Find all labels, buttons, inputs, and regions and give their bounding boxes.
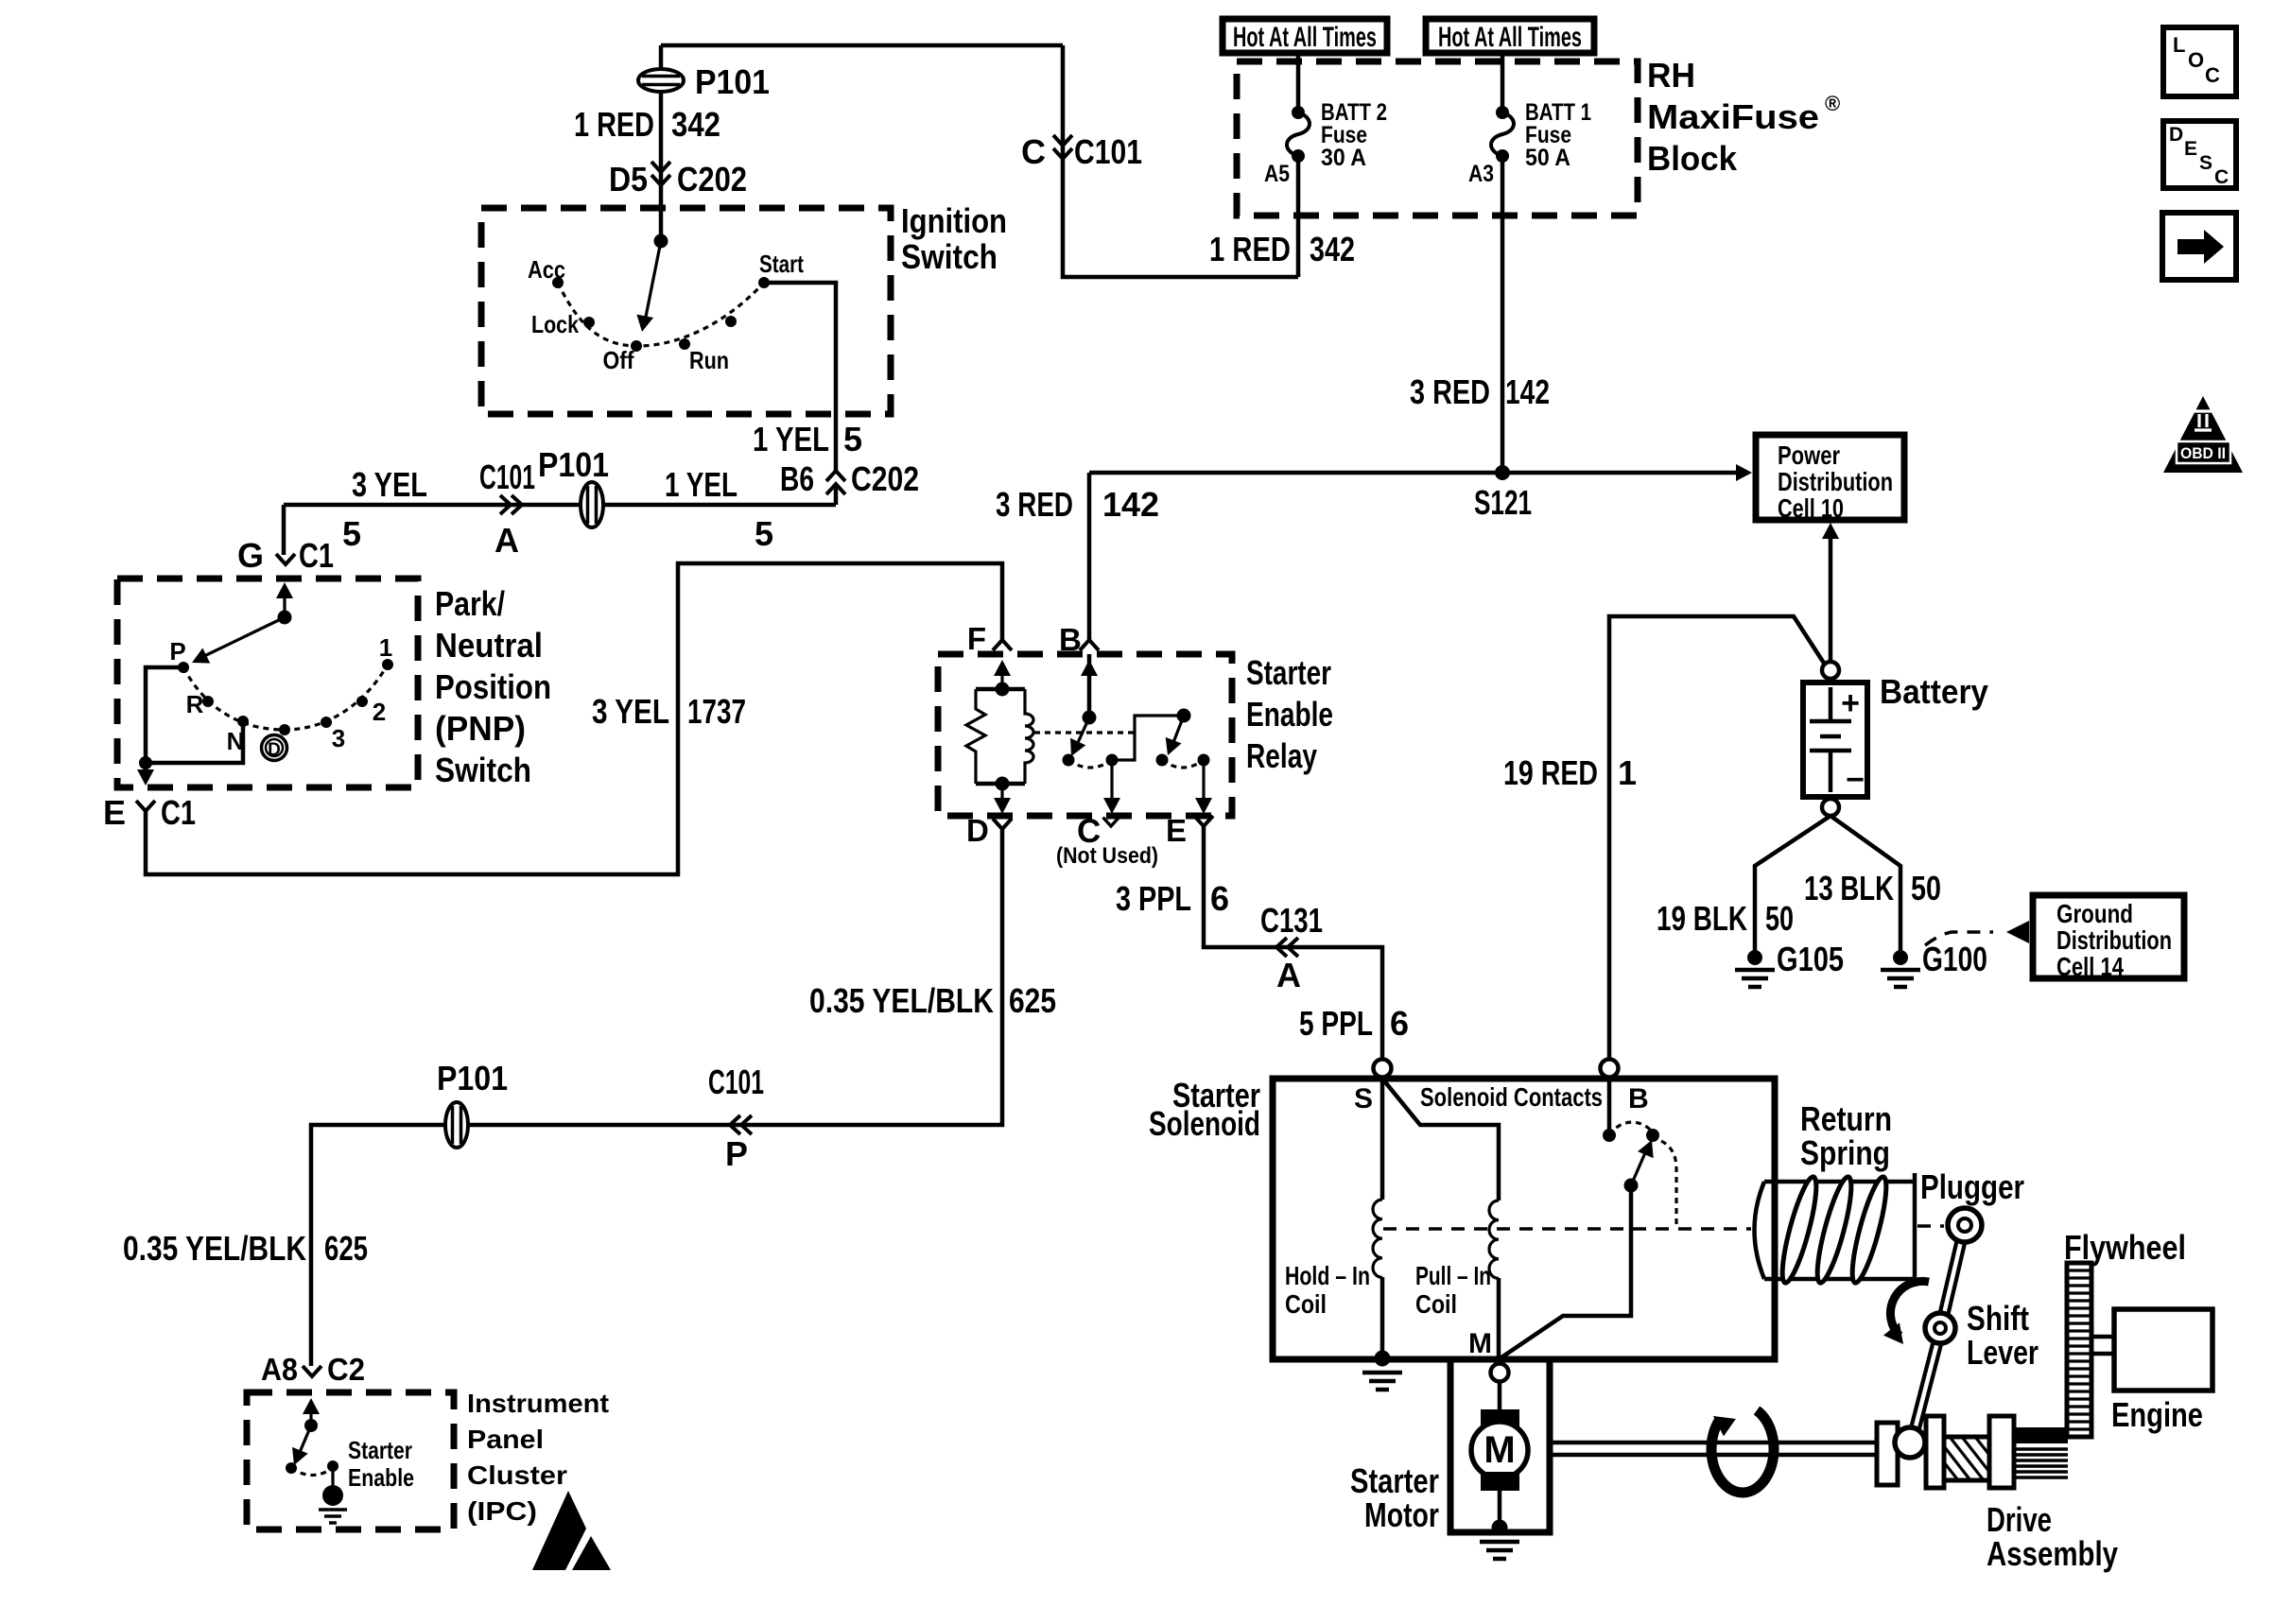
svg-text:S: S: [1354, 1083, 1373, 1114]
svg-text:3 RED: 3 RED: [996, 485, 1073, 524]
svg-text:Assembly: Assembly: [1987, 1534, 2118, 1573]
svg-text:P101: P101: [695, 62, 770, 101]
svg-text:3 YEL: 3 YEL: [352, 465, 427, 504]
svg-text:3 PPL: 3 PPL: [1116, 879, 1191, 918]
svg-text:1: 1: [1618, 753, 1637, 792]
svg-text:6: 6: [1390, 1004, 1409, 1043]
svg-text:E: E: [103, 793, 126, 832]
svg-text:Lock: Lock: [531, 310, 579, 338]
svg-text:Switch: Switch: [901, 237, 998, 276]
svg-text:625: 625: [324, 1229, 368, 1268]
svg-text:C: C: [2205, 63, 2220, 87]
svg-text:Distribution: Distribution: [2056, 925, 2172, 955]
svg-text:Engine: Engine: [2111, 1395, 2203, 1434]
svg-text:G: G: [237, 536, 264, 575]
svg-text:Starter: Starter: [348, 1436, 412, 1464]
svg-text:Spring: Spring: [1800, 1133, 1890, 1172]
svg-text:P: P: [169, 637, 185, 665]
svg-text:P101: P101: [437, 1059, 508, 1097]
svg-text:3 RED: 3 RED: [1410, 372, 1490, 411]
svg-text:Power: Power: [1778, 441, 1840, 470]
svg-text:(Not Used): (Not Used): [1056, 843, 1158, 869]
svg-text:O: O: [2188, 48, 2204, 72]
svg-text:50 A: 50 A: [1525, 145, 1570, 171]
svg-text:L: L: [2173, 33, 2185, 57]
svg-text:A8: A8: [261, 1352, 298, 1387]
svg-text:Cell 14: Cell 14: [2056, 952, 2124, 981]
svg-text:1737: 1737: [687, 692, 746, 731]
svg-text:Motor: Motor: [1364, 1495, 1439, 1534]
svg-text:D5: D5: [609, 160, 648, 199]
svg-text:G105: G105: [1777, 940, 1844, 978]
svg-text:C202: C202: [677, 160, 747, 199]
svg-text:P101: P101: [538, 445, 609, 484]
svg-text:C101: C101: [708, 1063, 764, 1101]
svg-text:S121: S121: [1474, 483, 1532, 522]
svg-text:Pull – In: Pull – In: [1415, 1261, 1491, 1290]
svg-text:+: +: [1841, 685, 1860, 721]
svg-text:Neutral: Neutral: [435, 626, 543, 665]
svg-text:1 YEL: 1 YEL: [665, 465, 737, 504]
svg-text:C101: C101: [479, 458, 535, 496]
svg-text:Drive: Drive: [1987, 1500, 2052, 1539]
svg-text:Flywheel: Flywheel: [2064, 1228, 2186, 1267]
svg-text:142: 142: [1505, 372, 1550, 411]
svg-text:Distribution: Distribution: [1778, 467, 1893, 496]
svg-text:A: A: [495, 521, 519, 560]
svg-text:Starter: Starter: [1350, 1461, 1439, 1500]
svg-text:Hold – In: Hold – In: [1285, 1261, 1370, 1290]
svg-text:E: E: [1166, 813, 1187, 848]
svg-text:R: R: [186, 690, 204, 718]
svg-text:A3: A3: [1468, 161, 1494, 187]
svg-text:50: 50: [1911, 869, 1941, 907]
svg-text:5: 5: [843, 420, 862, 458]
svg-text:2: 2: [373, 698, 386, 726]
svg-text:B: B: [1628, 1083, 1649, 1114]
svg-text:Starter: Starter: [1246, 653, 1331, 692]
svg-text:342: 342: [671, 105, 720, 144]
svg-text:D: D: [966, 813, 989, 848]
svg-text:B6: B6: [780, 459, 814, 498]
svg-text:Shift: Shift: [1967, 1299, 2029, 1338]
svg-text:C131: C131: [1260, 901, 1323, 940]
svg-text:D: D: [268, 740, 281, 760]
svg-text:Position: Position: [435, 667, 551, 706]
svg-text:A5: A5: [1264, 161, 1290, 187]
svg-text:1 RED: 1 RED: [574, 105, 654, 144]
svg-text:1: 1: [379, 633, 392, 662]
svg-text:C2: C2: [327, 1352, 365, 1387]
svg-text:Cluster: Cluster: [467, 1460, 567, 1490]
svg-text:®: ®: [1825, 92, 1840, 115]
svg-text:Plugger: Plugger: [1920, 1167, 2024, 1206]
svg-text:Hot At All Times: Hot At All Times: [1233, 22, 1377, 53]
svg-text:C1: C1: [299, 536, 334, 575]
svg-text:Relay: Relay: [1246, 736, 1317, 775]
svg-text:E: E: [2184, 138, 2197, 160]
svg-text:Instrument: Instrument: [467, 1389, 609, 1418]
svg-text:P: P: [725, 1134, 748, 1173]
svg-text:C: C: [2214, 166, 2229, 188]
svg-text:M: M: [1484, 1429, 1515, 1471]
svg-text:5 PPL: 5 PPL: [1299, 1004, 1373, 1043]
svg-text:6: 6: [1210, 879, 1229, 918]
svg-text:Ignition: Ignition: [901, 201, 1007, 240]
svg-text:1 YEL: 1 YEL: [753, 420, 829, 458]
svg-text:A: A: [1276, 956, 1301, 994]
svg-text:Panel: Panel: [467, 1425, 544, 1454]
svg-text:F: F: [967, 621, 986, 656]
svg-text:Off: Off: [603, 346, 634, 374]
svg-text:C202: C202: [851, 459, 919, 498]
svg-text:Start: Start: [759, 250, 804, 278]
svg-text:Block: Block: [1647, 139, 1738, 178]
svg-text:19 RED: 19 RED: [1503, 753, 1598, 792]
svg-text:Battery: Battery: [1880, 672, 1988, 711]
svg-text:50: 50: [1765, 899, 1794, 938]
svg-text:−: −: [1846, 762, 1865, 798]
svg-text:Solenoid Contacts: Solenoid Contacts: [1420, 1082, 1603, 1112]
svg-text:C: C: [1021, 132, 1046, 171]
svg-text:N: N: [227, 727, 245, 755]
svg-text:(IPC): (IPC): [467, 1496, 537, 1526]
svg-text:Switch: Switch: [435, 751, 531, 789]
svg-text:Return: Return: [1800, 1099, 1892, 1138]
svg-text:(PNP): (PNP): [435, 709, 526, 748]
svg-text:Lever: Lever: [1967, 1333, 2039, 1372]
svg-text:Ground: Ground: [2056, 899, 2133, 928]
svg-text:Enable: Enable: [348, 1463, 414, 1492]
svg-text:30 A: 30 A: [1321, 145, 1366, 171]
svg-text:M: M: [1468, 1328, 1492, 1359]
svg-text:0.35 YEL/BLK: 0.35 YEL/BLK: [809, 981, 994, 1020]
svg-text:1 RED: 1 RED: [1209, 230, 1291, 268]
svg-text:Park/: Park/: [435, 584, 505, 623]
svg-text:C1: C1: [161, 793, 196, 832]
svg-text:OBD II: OBD II: [2180, 445, 2226, 462]
svg-text:342: 342: [1310, 230, 1355, 268]
svg-text:C101: C101: [1074, 132, 1142, 171]
svg-text:3: 3: [332, 724, 345, 752]
svg-text:B: B: [1059, 622, 1082, 657]
svg-text:19 BLK: 19 BLK: [1657, 899, 1747, 938]
svg-text:Coil: Coil: [1415, 1289, 1457, 1319]
svg-text:Acc: Acc: [528, 255, 565, 284]
svg-text:5: 5: [755, 514, 773, 553]
svg-text:3 YEL: 3 YEL: [592, 692, 669, 731]
svg-text:G100: G100: [1922, 940, 1987, 978]
svg-text:5: 5: [342, 514, 361, 553]
svg-text:Enable: Enable: [1246, 695, 1333, 734]
svg-text:Coil: Coil: [1285, 1289, 1327, 1319]
svg-text:RH: RH: [1647, 56, 1695, 95]
svg-text:0.35 YEL/BLK: 0.35 YEL/BLK: [123, 1229, 306, 1268]
svg-text:S: S: [2199, 152, 2212, 174]
svg-text:13 BLK: 13 BLK: [1804, 869, 1894, 907]
svg-text:D: D: [2169, 124, 2183, 146]
svg-text:Hot At All Times: Hot At All Times: [1438, 22, 1582, 53]
svg-text:Cell 10: Cell 10: [1778, 493, 1844, 523]
svg-text:MaxiFuse: MaxiFuse: [1647, 97, 1819, 136]
svg-text:Run: Run: [689, 346, 729, 374]
svg-text:142: 142: [1102, 485, 1159, 524]
svg-text:Solenoid: Solenoid: [1149, 1104, 1260, 1143]
svg-text:625: 625: [1009, 981, 1056, 1020]
